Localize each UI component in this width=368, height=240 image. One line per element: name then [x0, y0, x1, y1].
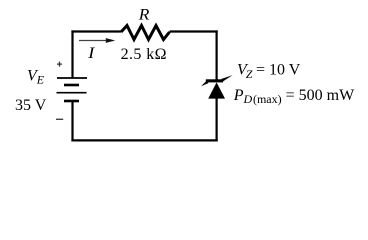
- wire top-right segment: [170, 30, 218, 32]
- current arrow I line: [79, 40, 107, 42]
- wire left upper (top to battery plus): [71, 30, 73, 78]
- current arrow head: [106, 38, 115, 43]
- svg-text:PD(max) = 500 mW: PD(max) = 500 mW: [233, 87, 355, 106]
- svg-text:VZ = 10 V: VZ = 10 V: [237, 62, 301, 81]
- battery plate 4 short thick: [64, 100, 79, 103]
- zener diode anode triangle: [208, 82, 225, 98]
- svg-text:I: I: [87, 45, 95, 62]
- wire bottom: [71, 139, 217, 141]
- plus sign: [57, 62, 62, 67]
- wire right lower (zener anode down): [216, 98, 218, 142]
- battery plate 2 short thick: [64, 84, 79, 87]
- minus sign: [56, 118, 63, 120]
- zener diode left wing: [201, 79, 208, 86]
- zener diode right wing: [222, 75, 233, 82]
- svg-text:2.5 kΩ: 2.5 kΩ: [121, 46, 167, 63]
- wire top-left segment: [71, 30, 121, 32]
- battery plate 3 long: [57, 92, 87, 94]
- resistor R zigzag: [121, 26, 170, 40]
- svg-text:35 V: 35 V: [15, 97, 47, 114]
- svg-text:VE: VE: [27, 67, 45, 86]
- battery plate 1 long: [57, 77, 87, 79]
- zener diode cathode bar: [206, 79, 223, 82]
- svg-text:R: R: [138, 6, 150, 23]
- wire right upper (to zener cathode): [216, 30, 218, 80]
- wire left lower (battery minus down): [71, 102, 73, 142]
